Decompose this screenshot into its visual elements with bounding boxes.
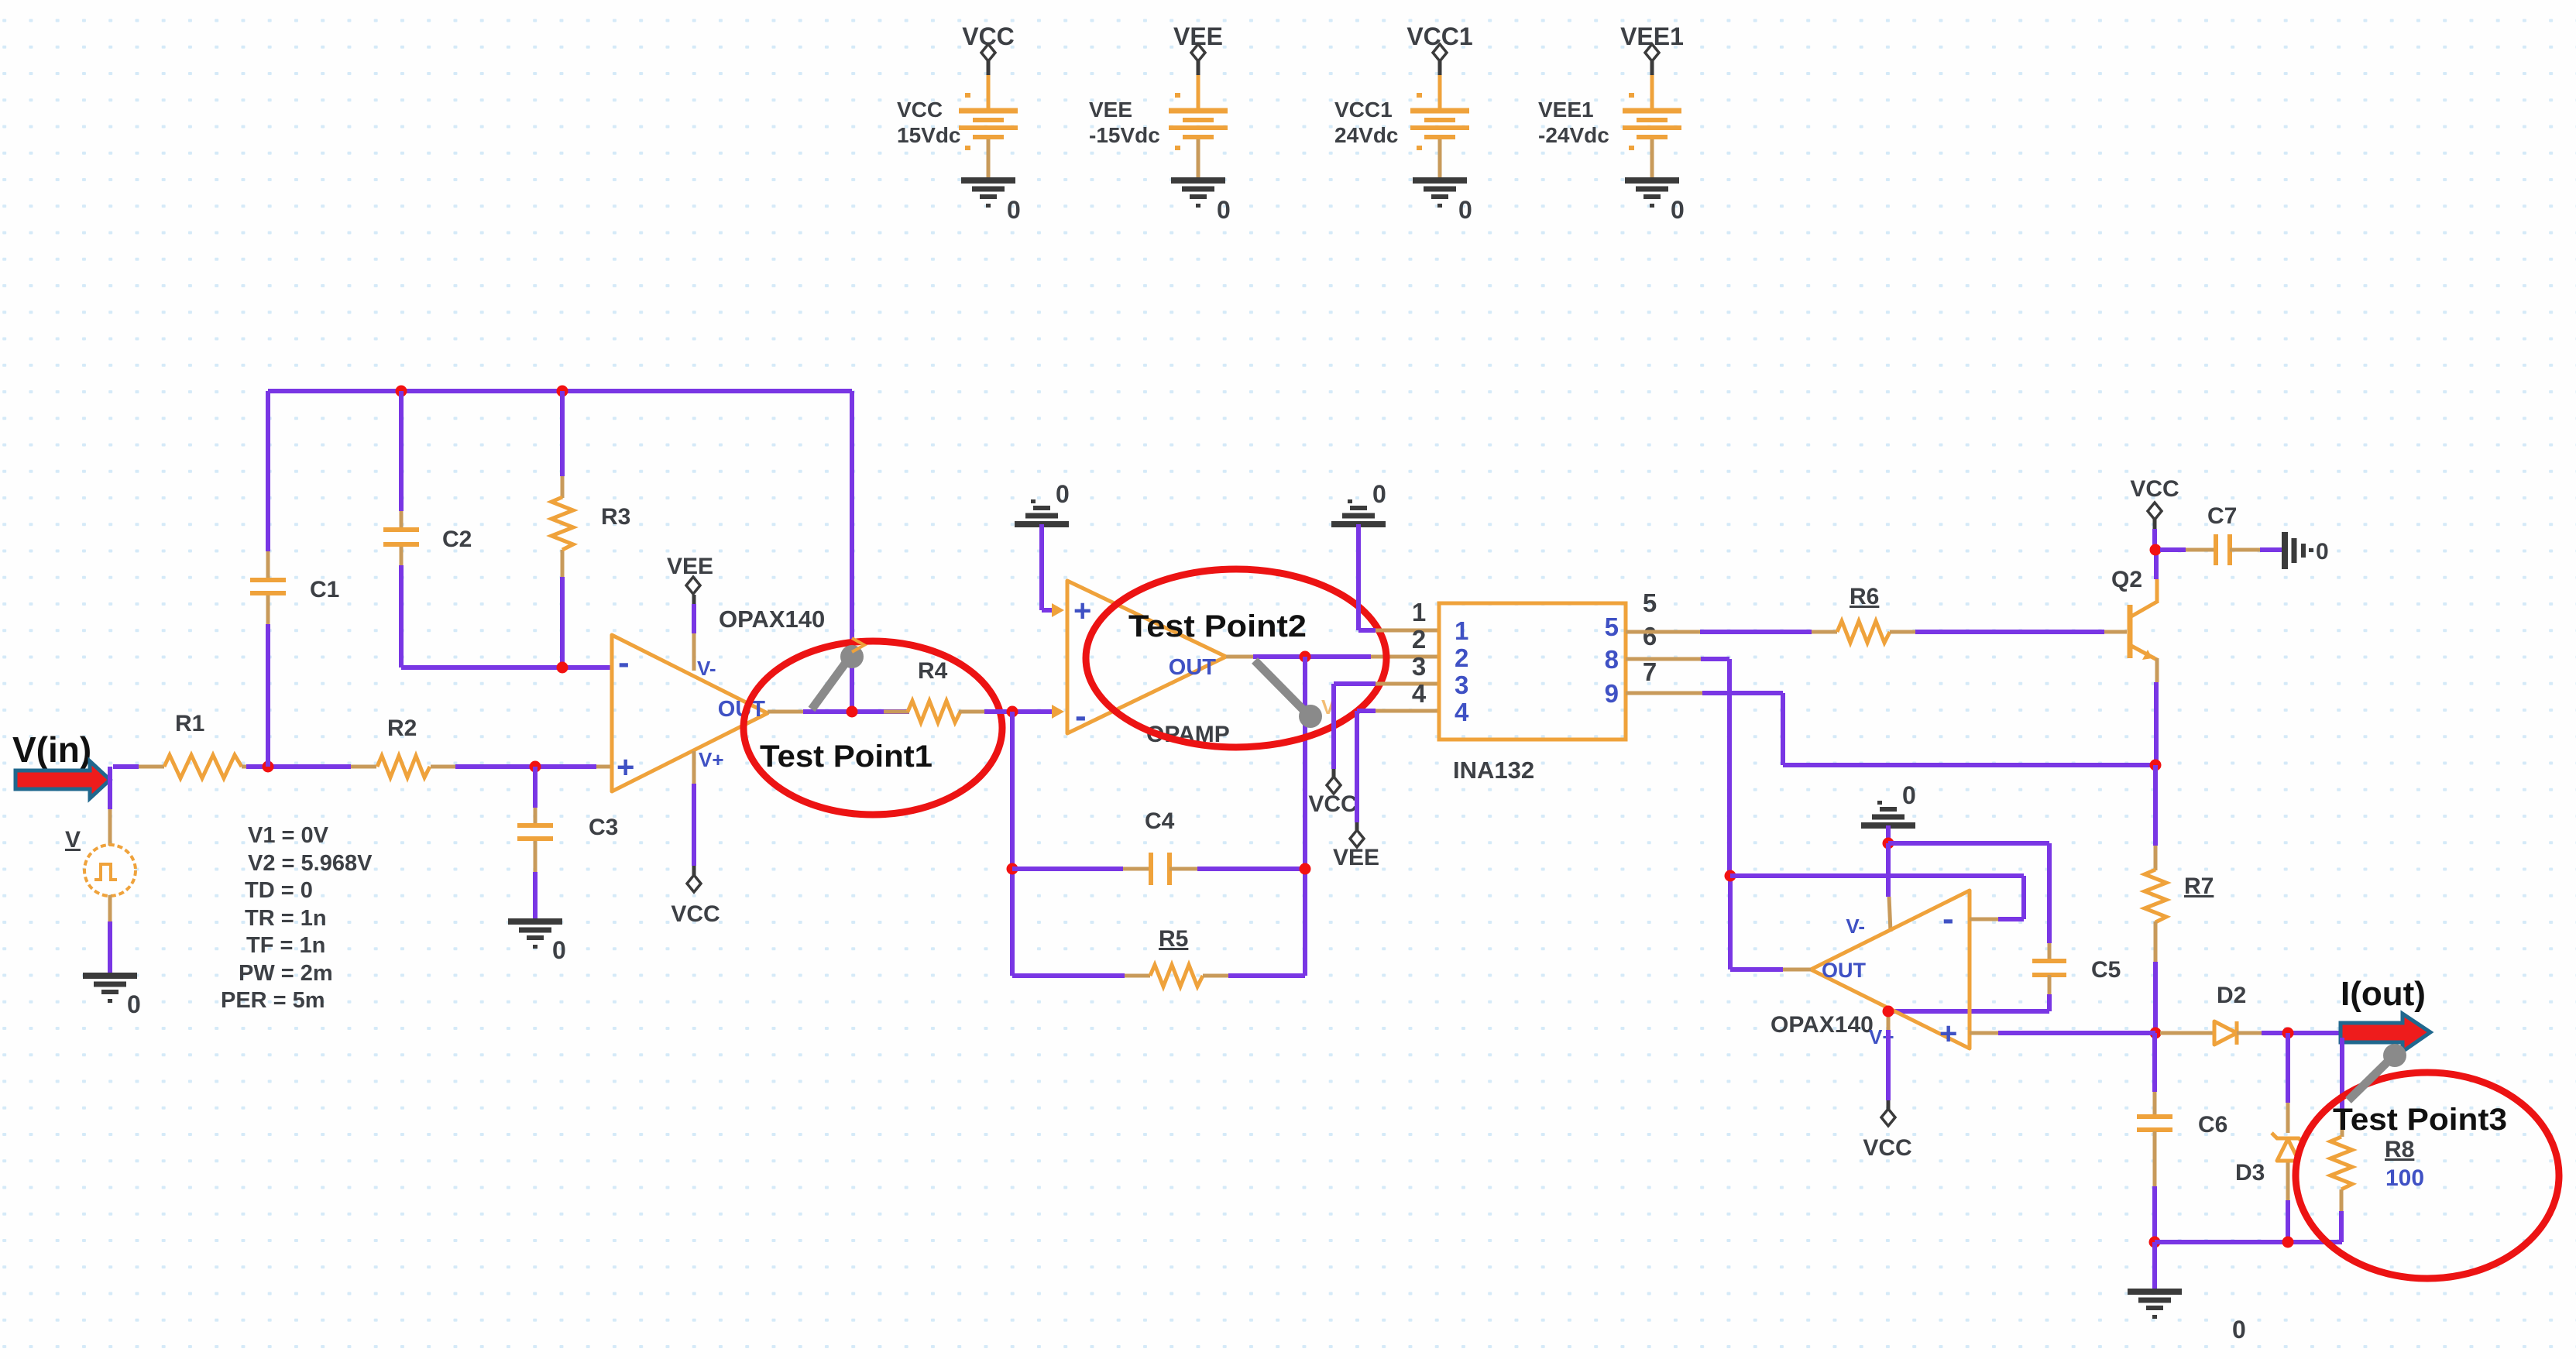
resistor R4 <box>884 710 909 714</box>
svg-text:PER = 5m: PER = 5m <box>221 988 325 1013</box>
op-amp U2 input pin arrow plus <box>1052 603 1064 617</box>
svg-text:V-: V- <box>1846 915 1865 938</box>
svg-text:C3: C3 <box>589 815 618 840</box>
op-amp U1 OPAX140 <box>612 635 768 791</box>
svg-text:0: 0 <box>2316 539 2329 565</box>
svg-text:8: 8 <box>1605 645 1619 674</box>
resistor R6 <box>1812 630 1837 634</box>
feedback drop at R4 node <box>1010 712 1015 976</box>
node U2 output junction <box>1300 651 1311 663</box>
wire Q2 collector to VCC node <box>2154 550 2159 579</box>
svg-text:C5: C5 <box>2091 957 2121 983</box>
node collector junction <box>2150 544 2162 556</box>
node D2 cathode junction <box>2282 1028 2294 1039</box>
feedback top rail <box>268 389 852 393</box>
node junction R1/R2/C1 <box>263 761 274 773</box>
svg-text:C7: C7 <box>2207 503 2237 529</box>
svg-text:C1: C1 <box>310 577 339 602</box>
op-amp U3 V+ pin <box>1887 1007 1891 1030</box>
svg-text:2: 2 <box>1412 625 1426 654</box>
I(out) output arrow <box>2341 1014 2430 1052</box>
Test Point3 ellipse <box>2296 1072 2559 1278</box>
op-amp U1 V- pin <box>692 595 696 604</box>
capacitor C1 <box>250 578 286 582</box>
svg-text:24Vdc: 24Vdc <box>1334 123 1399 147</box>
capacitor C6 <box>2152 1033 2157 1092</box>
svg-text:V(in): V(in) <box>12 729 91 770</box>
diode D3 branch <box>2286 1033 2290 1103</box>
svg-text:0: 0 <box>1458 196 1472 224</box>
VCC terminal INA <box>1327 777 1341 794</box>
op-amp U3 OPAX140 <box>1811 891 1970 1048</box>
node C6 bottom junction <box>2149 1237 2161 1248</box>
svg-text:0: 0 <box>552 936 566 964</box>
svg-text:VCC: VCC <box>1863 1135 1911 1161</box>
svg-text:5: 5 <box>1643 589 1657 617</box>
wire source V to ground <box>108 895 112 921</box>
svg-text:0: 0 <box>127 990 141 1018</box>
svg-text:VCC1: VCC1 <box>1334 98 1393 122</box>
op-amp U3 V- pin <box>1886 843 1891 897</box>
wire U1 out to R4 <box>803 709 909 714</box>
svg-text:VEE: VEE <box>667 554 713 579</box>
zener diode D3 <box>2272 1133 2304 1144</box>
svg-text:-24Vdc: -24Vdc <box>1538 123 1609 147</box>
node C4 right <box>1300 863 1311 875</box>
svg-text:3: 3 <box>1455 671 1468 699</box>
svg-text:+: + <box>1939 1017 1957 1051</box>
wire arrow to R1 <box>113 764 139 769</box>
svg-text:R6: R6 <box>1850 584 1879 609</box>
svg-text:0: 0 <box>1372 480 1386 508</box>
ground below source V <box>83 973 137 979</box>
svg-text:0: 0 <box>1671 196 1685 224</box>
svg-text:0: 0 <box>1056 480 1070 508</box>
wire bottom row <box>2155 1240 2342 1244</box>
wire VCC terminal <box>2153 520 2157 529</box>
INA pin5 lead <box>1626 630 1700 634</box>
Test Point1 ellipse <box>744 641 1002 815</box>
svg-text:Test Point1: Test Point1 <box>760 740 933 774</box>
Test Point1 probe <box>812 661 847 709</box>
svg-text:VCC: VCC <box>2130 476 2179 502</box>
ground right of C7 <box>2282 532 2288 569</box>
svg-text:6: 6 <box>1643 622 1657 650</box>
ground above U3 <box>1861 822 1915 829</box>
wire U3 plus input <box>1970 1031 1998 1035</box>
op-amp U1 V+ pin <box>692 751 696 784</box>
resistor R2 <box>351 765 376 769</box>
svg-text:OUT: OUT <box>1169 655 1217 680</box>
svg-text:+: + <box>617 750 634 784</box>
resistor R7 <box>2153 765 2158 846</box>
resistor R8 <box>2340 1038 2344 1109</box>
svg-text:Test Point2: Test Point2 <box>1128 609 1307 643</box>
VEE terminal INA <box>1350 830 1364 847</box>
INA pin8 lead <box>1626 657 1701 661</box>
Test Point2 ellipse <box>1086 569 1386 747</box>
svg-text:INA132: INA132 <box>1453 757 1534 784</box>
wire pin8 down <box>1701 657 1729 661</box>
capacitor C3 <box>517 823 553 828</box>
capacitor C7 <box>2160 547 2186 552</box>
transistor Q2 <box>2128 605 2133 658</box>
svg-text:15Vdc: 15Vdc <box>897 123 961 147</box>
node rail/C2 <box>396 386 407 397</box>
svg-text:V+: V+ <box>699 748 724 771</box>
capacitor C4 <box>1012 867 1123 871</box>
wire Q2 emitter down <box>2154 682 2159 765</box>
svg-text:R8: R8 <box>2385 1137 2414 1162</box>
svg-text:V-: V- <box>697 657 716 680</box>
wire R2 to op-amp U1 + <box>455 764 596 769</box>
resistor R3 branch <box>560 391 565 476</box>
svg-text:PW = 2m: PW = 2m <box>239 961 333 986</box>
op-amp U2 OPAMP <box>1067 581 1226 733</box>
svg-text:OPAX140: OPAX140 <box>719 606 825 633</box>
wire U2 out to INA132 pin2 <box>1253 654 1371 659</box>
node V+ junction <box>1883 1006 1894 1018</box>
svg-text:4: 4 <box>1455 698 1469 726</box>
svg-text:-15Vdc: -15Vdc <box>1089 123 1160 147</box>
svg-text:R5: R5 <box>1159 926 1188 952</box>
ground above U2 <box>1015 521 1069 527</box>
svg-text:0: 0 <box>1007 196 1021 224</box>
svg-text:VEE1: VEE1 <box>1538 98 1594 122</box>
svg-text:+: + <box>1073 594 1091 628</box>
diode D2 <box>2160 1031 2214 1035</box>
resistor R3 <box>551 497 573 550</box>
svg-text:-: - <box>1075 697 1087 735</box>
svg-text:3: 3 <box>1412 652 1426 681</box>
wire pin5 to R6 <box>1700 630 1812 634</box>
svg-text:VCC: VCC <box>1308 791 1357 817</box>
svg-text:9: 9 <box>1605 679 1619 708</box>
svg-text:D3: D3 <box>2235 1160 2265 1186</box>
svg-text:R1: R1 <box>175 711 204 736</box>
capacitor C5 <box>2048 943 2052 959</box>
svg-text:TR = 1n: TR = 1n <box>245 906 327 931</box>
ground below C3 <box>508 918 562 925</box>
Test Point3 probe <box>2348 1059 2390 1100</box>
capacitor C3 branch <box>533 767 538 808</box>
ground bottom right <box>2128 1289 2182 1295</box>
VCC terminal below U1 <box>687 875 701 892</box>
svg-text:100: 100 <box>2385 1165 2424 1191</box>
wire to C5 top <box>1888 841 2049 846</box>
wire R6 to Q2 base <box>1915 630 2104 634</box>
wire R1 to junction <box>246 764 351 769</box>
VEE terminal above U1 <box>686 577 700 594</box>
svg-text:2: 2 <box>1455 643 1468 672</box>
node junction R2/C3 <box>530 761 541 773</box>
svg-text:TD = 0: TD = 0 <box>245 878 313 903</box>
wire U3 out feedback up <box>1728 876 1733 969</box>
node D3 bottom junction <box>2282 1237 2294 1248</box>
wire VEE to INA pin4 <box>1355 822 1359 831</box>
svg-text:R3: R3 <box>601 504 630 530</box>
svg-text:OPAX140: OPAX140 <box>1771 1012 1874 1038</box>
svg-text:R4: R4 <box>918 658 948 684</box>
node vertical to source V <box>108 767 112 809</box>
svg-text:V: V <box>65 827 81 853</box>
svg-text:C4: C4 <box>1145 808 1175 834</box>
feedback rail drop to output <box>850 391 854 712</box>
node U3 feedback junction <box>1725 870 1736 882</box>
node emitter junction <box>2150 760 2162 771</box>
svg-text:VEE: VEE <box>1089 98 1132 122</box>
ground above INA pin1 <box>1331 521 1386 527</box>
svg-text:1: 1 <box>1455 616 1468 645</box>
svg-text:5: 5 <box>1605 613 1619 641</box>
op-amp U2 output lead <box>1226 655 1253 659</box>
svg-text:D2: D2 <box>2217 983 2246 1008</box>
svg-text:I(out): I(out) <box>2341 975 2426 1013</box>
svg-text:C6: C6 <box>2198 1112 2227 1138</box>
svg-text:0: 0 <box>2232 1316 2246 1344</box>
svg-text:V1 = 0V: V1 = 0V <box>248 823 329 848</box>
svg-text:Q2: Q2 <box>2111 567 2142 592</box>
resistor R1 <box>139 765 164 769</box>
svg-text:VEE: VEE <box>1333 845 1379 870</box>
wire D2 to out node <box>2262 1031 2344 1035</box>
node junction R4/C4 <box>1007 706 1018 718</box>
svg-text:-: - <box>1942 900 1954 938</box>
VCC terminal above Q2 <box>2148 503 2162 520</box>
IC INA132 box <box>1439 603 1626 740</box>
wire R4 to U2 - <box>984 709 1053 714</box>
svg-text:0: 0 <box>1217 196 1231 224</box>
resistor R5 <box>1012 973 1125 978</box>
op-amp U1 output lead <box>768 710 803 714</box>
svg-text:C2: C2 <box>442 527 472 552</box>
capacitor C2 <box>383 527 419 532</box>
wire feedback to minus <box>1730 873 2024 878</box>
svg-text:Test Point3: Test Point3 <box>2333 1103 2507 1137</box>
wire ground to U2 + <box>1039 524 1044 610</box>
svg-text:R7: R7 <box>2184 873 2214 899</box>
VCC terminal below U3 <box>1881 1109 1895 1126</box>
svg-text:4: 4 <box>1412 679 1427 708</box>
INA pin9 lead <box>1626 692 1702 695</box>
wire C2/R3 to U1 - input <box>401 665 612 670</box>
Test Point2 probe <box>1255 661 1307 714</box>
svg-text:VCC: VCC <box>897 98 943 122</box>
node U1 output junction <box>847 706 858 718</box>
node junction R3 on minus wire <box>557 662 568 674</box>
node C4 left <box>1007 863 1018 875</box>
wire ground to INA pin1 <box>1356 524 1361 630</box>
svg-text:1: 1 <box>1412 598 1426 626</box>
svg-text:VCC: VCC <box>671 901 720 927</box>
svg-text:7: 7 <box>1643 657 1657 686</box>
svg-text:R2: R2 <box>387 716 417 741</box>
node R7 bottom junction <box>2150 1028 2162 1039</box>
capacitor C1 branch <box>266 391 270 551</box>
node rail/R3 <box>557 386 568 397</box>
wire ground U3 down <box>1886 825 1891 846</box>
wire VCC to INA pin3 <box>1332 769 1336 777</box>
op-amp U2 input pin arrow minus <box>1052 705 1064 719</box>
node U3 ground junction <box>1883 838 1894 849</box>
wire to bottom ground <box>2152 1242 2157 1293</box>
op-amp U3 output lead <box>1783 968 1811 972</box>
svg-text:0: 0 <box>1902 781 1916 809</box>
svg-text:-: - <box>618 643 630 681</box>
svg-text:V2 = 5.968V: V2 = 5.968V <box>248 851 373 876</box>
capacitor C2 branch <box>399 391 404 511</box>
V(in) input arrow <box>15 761 110 798</box>
feedback drop from U2 out <box>1303 657 1307 976</box>
svg-text:OUT: OUT <box>1822 959 1867 982</box>
pulse source V <box>84 845 136 896</box>
wire pin9 to emitter node <box>1702 691 1783 695</box>
svg-text:TF = 1n: TF = 1n <box>246 933 325 958</box>
